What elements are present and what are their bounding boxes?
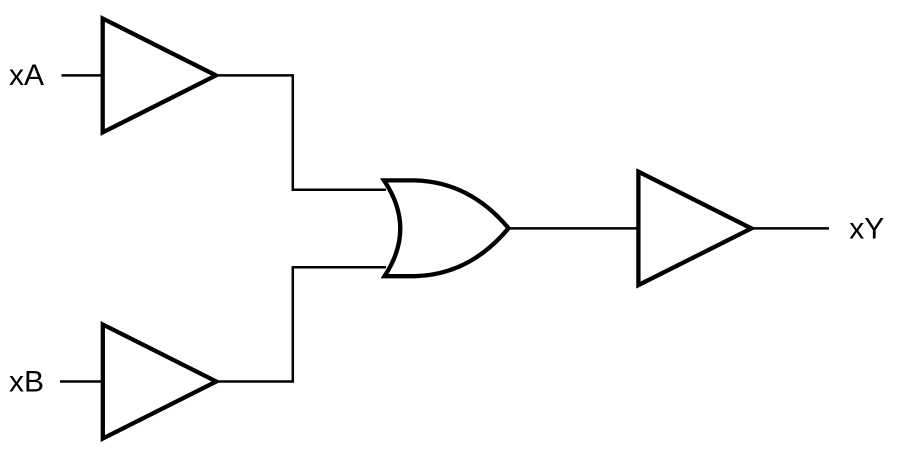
svg-text:xB: xB	[9, 366, 44, 399]
svg-text:xY: xY	[849, 213, 884, 246]
svg-text:xA: xA	[9, 59, 44, 92]
